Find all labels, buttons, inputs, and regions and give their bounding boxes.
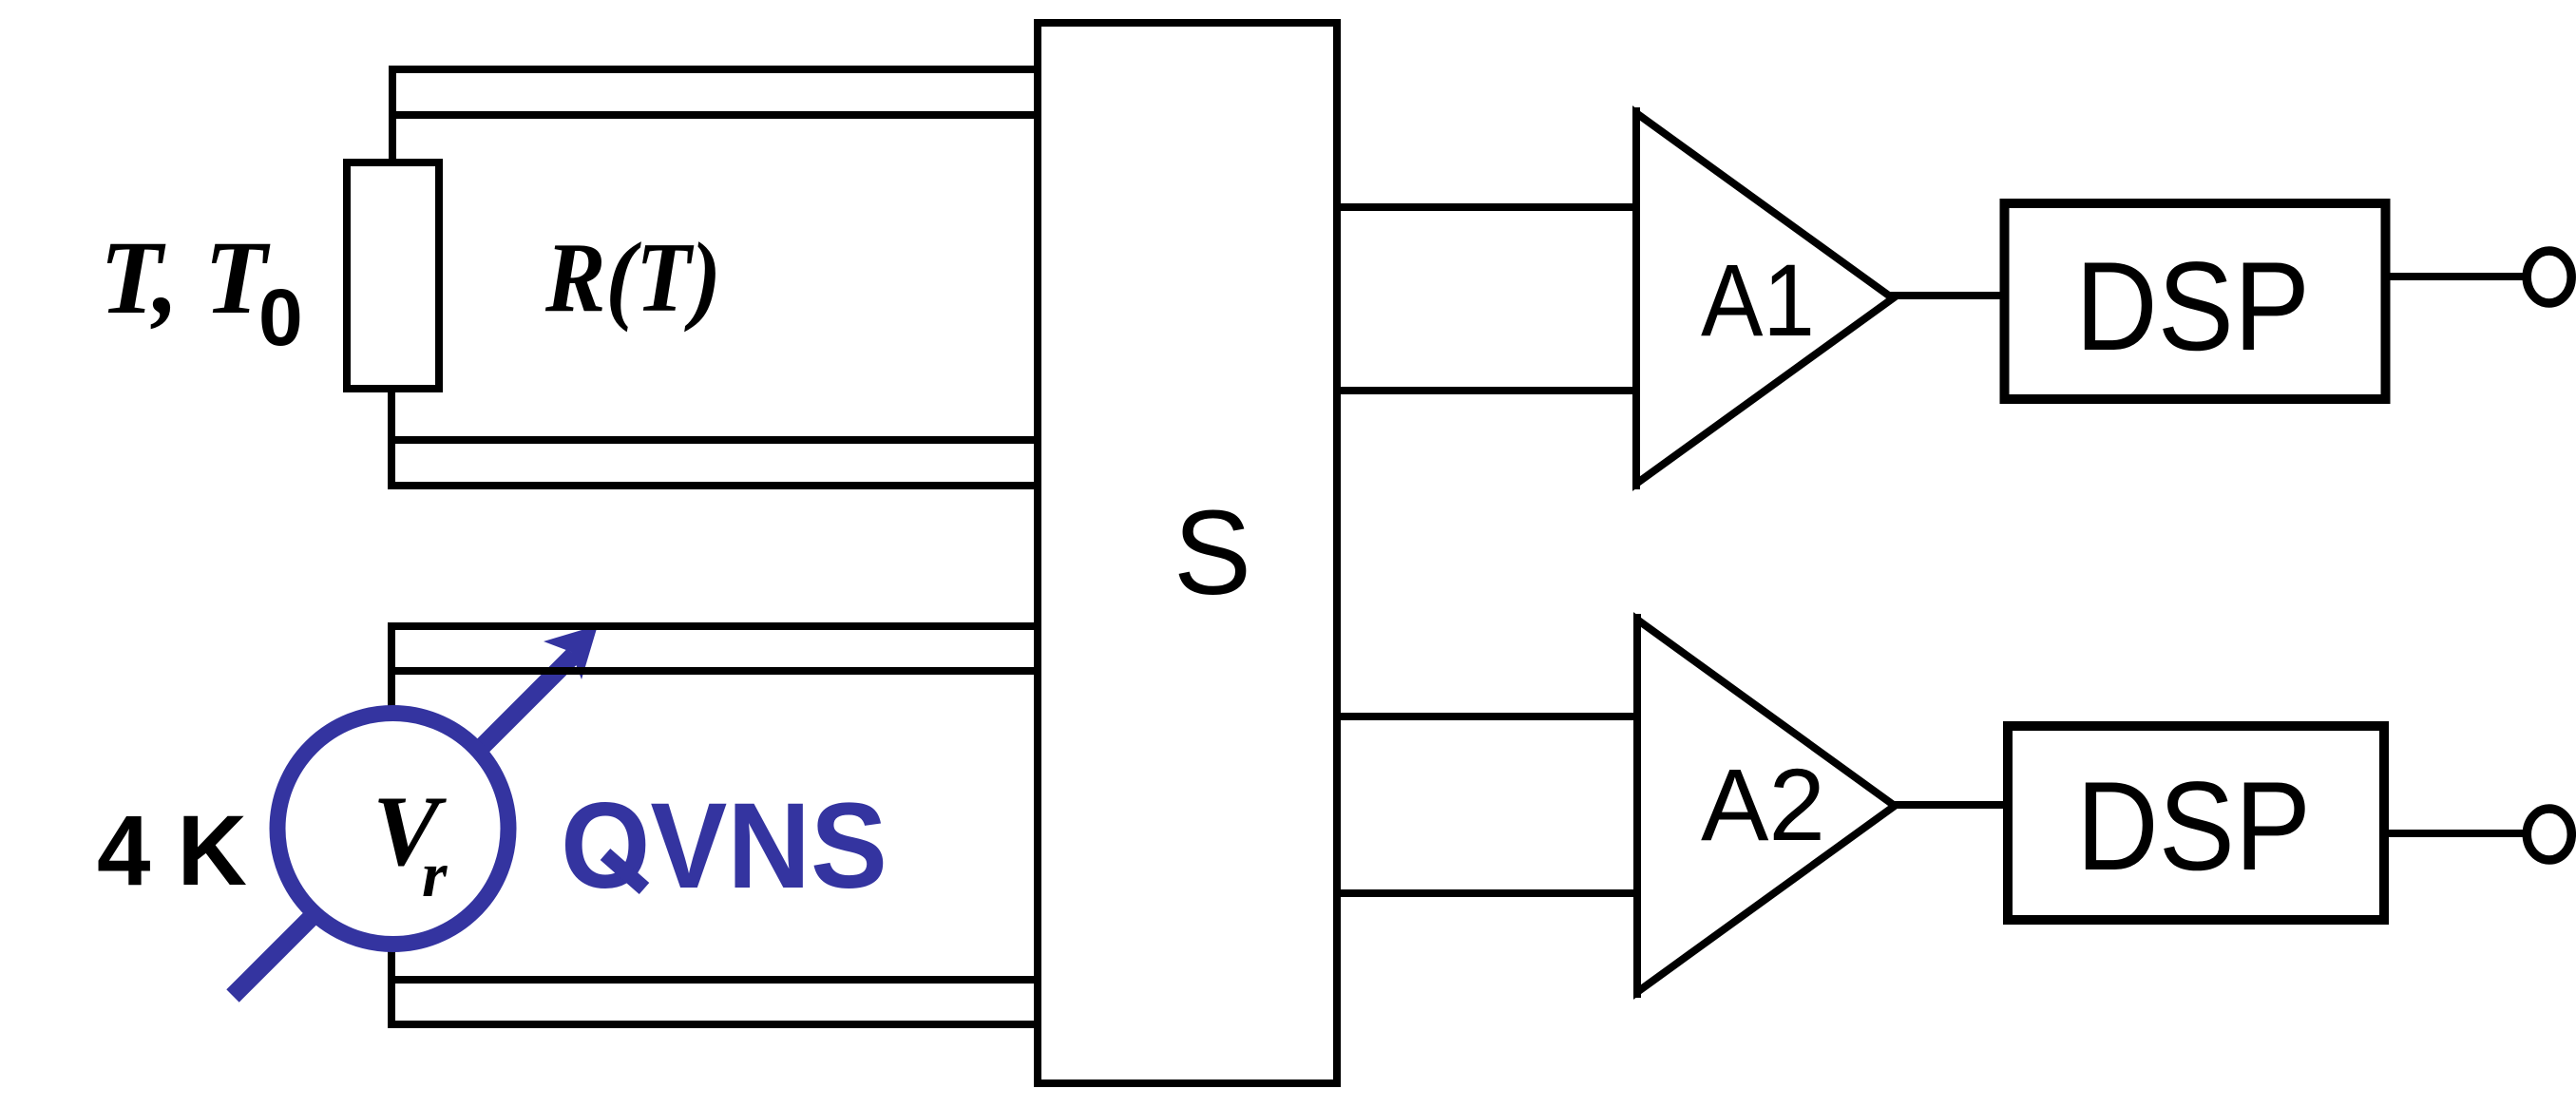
svg-text:DSP: DSP	[2076, 756, 2311, 897]
resistor R(T)	[347, 162, 439, 389]
output terminal 2	[2527, 809, 2571, 860]
wire A1 to DSP1	[1889, 292, 2005, 299]
DSP box 1	[2005, 203, 2386, 399]
wire S to A1 upper	[1337, 203, 1636, 211]
wire resistor bottom lead to pair 2 lower	[391, 389, 1038, 486]
svg-text:r: r	[422, 838, 448, 910]
QVNS source circle Vr	[277, 714, 508, 945]
output terminal 1	[2527, 251, 2571, 303]
amplifier A2	[1637, 614, 1895, 998]
wire QVNS pair upper (lead 1)	[391, 626, 1038, 1024]
wire pair 2 upper (resistor lead 3)	[391, 436, 1038, 444]
wire S to A2 lower	[1337, 889, 1637, 897]
wire S to A1 lower	[1337, 387, 1636, 394]
svg-text:S: S	[1174, 486, 1251, 620]
wire DSP2 to output	[2384, 830, 2528, 837]
wire A2 to DSP2	[1891, 801, 2008, 809]
wire S to A2 upper	[1337, 713, 1637, 720]
DSP box 2	[2008, 726, 2384, 920]
svg-text:DSP: DSP	[2075, 237, 2310, 377]
wire top pair upper (resistor sense lead 1)	[392, 69, 1038, 162]
svg-text:A1: A1	[1701, 242, 1815, 357]
arrow head	[544, 625, 598, 679]
svg-text:4 K: 4 K	[97, 795, 247, 907]
Q tail stroke	[605, 854, 644, 888]
svg-text:R(T): R(T)	[544, 221, 721, 333]
amplifier A1	[1636, 107, 1893, 489]
wire QVNS lead 3	[391, 976, 1038, 984]
svg-text:0: 0	[258, 273, 303, 362]
wire DSP1 to output	[2385, 273, 2528, 280]
wire top pair lower (resistor sense lead 2)	[392, 111, 1038, 119]
wire QVNS lead 2	[391, 667, 1038, 675]
switch box S	[1038, 23, 1337, 1083]
arrow shaft (variable source arrow)	[233, 655, 574, 996]
svg-text:A2: A2	[1701, 747, 1825, 862]
svg-text:OVNS: OVNS	[561, 778, 887, 914]
svg-text:T, T: T, T	[100, 220, 271, 335]
